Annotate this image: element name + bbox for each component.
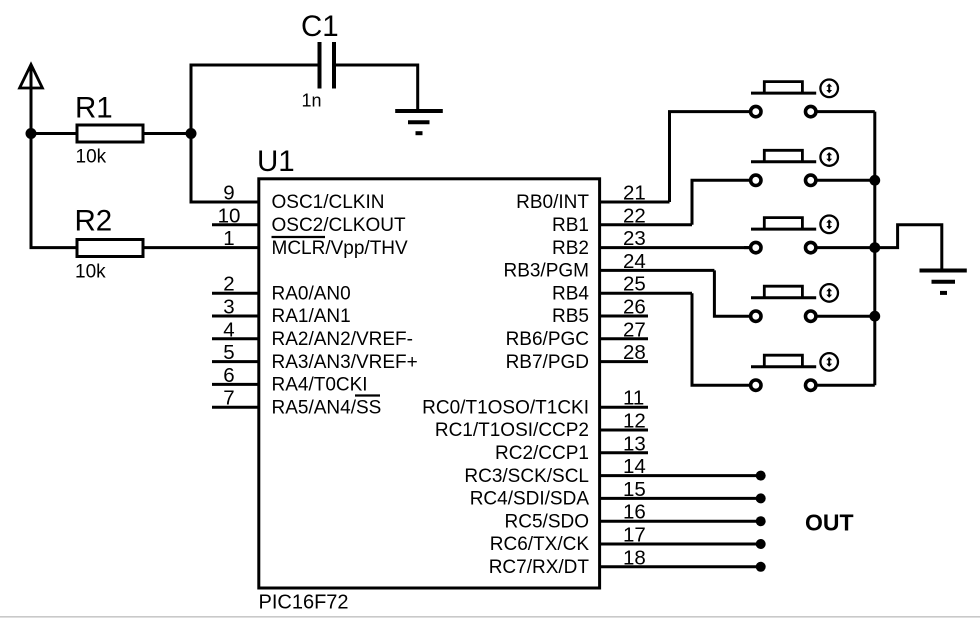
pin 15 (RC4/SDI/SDA) — [470, 478, 766, 510]
pin 11 (RC0/T1OSO/T1CKI) — [422, 387, 648, 419]
svg-text:RA3/AN3/VREF+: RA3/AN3/VREF+ — [272, 352, 418, 373]
node junction VCC/R1 — [26, 128, 37, 139]
pin 7 (RA5/AN4/SS) — [212, 387, 381, 419]
wire C1 to ground — [336, 65, 418, 110]
svg-text:MCLR/Vpp/THV: MCLR/Vpp/THV — [272, 238, 409, 259]
pin 26 (RB5) — [552, 296, 648, 328]
svg-text:5: 5 — [223, 341, 234, 364]
wire pin 23 to S3 — [744, 246, 750, 249]
switch S5 actuation icon — [820, 353, 838, 371]
svg-text:10k: 10k — [76, 147, 107, 168]
wire S5 to bus — [817, 384, 875, 387]
svg-text:4: 4 — [223, 318, 234, 341]
pin 10 (OSC2/CLKOUT) — [212, 204, 406, 236]
switch S2 actuation icon — [820, 148, 838, 166]
svg-text:14: 14 — [623, 455, 646, 478]
svg-text:12: 12 — [623, 410, 646, 433]
wire S4 to bus — [817, 315, 875, 318]
wire VCC rail down to R2 row — [31, 88, 76, 248]
svg-text:RA1/AN1: RA1/AN1 — [272, 306, 351, 327]
pin 25 (RB4) — [552, 273, 692, 305]
wire R1 to node B — [143, 132, 191, 135]
pin 22 (RB1) — [552, 204, 692, 236]
wire S1 to bus — [817, 110, 875, 113]
VCC power arrow — [20, 65, 43, 89]
wire pin 21 up to S1 — [670, 112, 750, 202]
wire R2 to pin 1 MCLR — [143, 246, 259, 249]
svg-text:RC3/SCK/SCL: RC3/SCK/SCL — [464, 466, 589, 487]
switch S4 actuation icon — [820, 284, 838, 302]
svg-text:1n: 1n — [302, 91, 322, 111]
pin 2 (RA0/AN0) — [212, 273, 351, 305]
ground (under C1) — [395, 111, 443, 133]
svg-text:RB5: RB5 — [552, 306, 589, 327]
svg-text:RC6/TX/CK: RC6/TX/CK — [490, 534, 590, 555]
svg-text:6: 6 — [223, 364, 234, 387]
svg-text:RB2: RB2 — [552, 238, 589, 259]
svg-text:11: 11 — [623, 387, 644, 410]
pin 28 (RB7/PGD) — [506, 341, 648, 373]
svg-text:U1: U1 — [257, 145, 295, 178]
pin 24 (RB3/PGM) — [503, 250, 714, 282]
svg-text:21: 21 — [623, 182, 646, 205]
switch S2 push button — [751, 150, 817, 185]
capacitor C1 — [320, 42, 335, 89]
svg-text:RB0/INT: RB0/INT — [516, 192, 589, 213]
pin 23 (RB2) — [552, 227, 750, 259]
pin 16 (RC5/SDO) — [505, 501, 766, 533]
svg-text:17: 17 — [623, 524, 646, 547]
wire node B down to pin 9 — [191, 134, 259, 203]
node junction R1/C1/OSC1 — [186, 128, 197, 139]
pin 12 (RC1/T1OSI/CCP2) — [435, 410, 648, 442]
svg-text:25: 25 — [623, 273, 646, 296]
svg-text:16: 16 — [623, 501, 646, 524]
svg-text:RB7/PGD: RB7/PGD — [506, 352, 589, 373]
svg-text:7: 7 — [223, 387, 234, 410]
svg-text:9: 9 — [223, 182, 234, 205]
switch S1 push button — [751, 82, 817, 117]
svg-text:2: 2 — [223, 273, 234, 296]
svg-text:RB3/PGM: RB3/PGM — [503, 261, 589, 282]
pin 27 (RB6/PGC) — [506, 318, 648, 350]
node bus/S4 — [869, 311, 880, 322]
bottom separator line — [0, 616, 980, 618]
IC U1 PIC16F72 body — [259, 179, 600, 588]
svg-text:RC0/T1OSO/T1CKI: RC0/T1OSO/T1CKI — [422, 397, 589, 418]
switch S4 push button — [751, 286, 817, 321]
switch S3 actuation icon — [820, 216, 838, 234]
pin 17 (RC6/TX/CK) — [490, 524, 766, 556]
svg-text:RC1/T1OSI/CCP2: RC1/T1OSI/CCP2 — [435, 420, 589, 441]
wire pin 24 down to S4 — [714, 270, 749, 316]
svg-text:RC4/SDI/SDA: RC4/SDI/SDA — [470, 489, 590, 510]
switch S1 actuation icon — [820, 80, 838, 98]
svg-text:26: 26 — [623, 296, 646, 319]
svg-text:RB6/PGC: RB6/PGC — [506, 329, 589, 350]
wire S3 to bus — [817, 246, 875, 249]
switch S5 push button — [751, 355, 817, 390]
switch S3 push button — [751, 218, 817, 253]
svg-text:22: 22 — [623, 204, 646, 227]
svg-text:15: 15 — [623, 478, 646, 501]
overline SS — [355, 394, 380, 396]
svg-text:R2: R2 — [75, 205, 113, 238]
wire node B up to C1 — [191, 65, 318, 134]
ground (right) — [920, 271, 967, 293]
svg-text:1: 1 — [223, 227, 234, 250]
svg-text:OSC2/CLKOUT: OSC2/CLKOUT — [272, 215, 406, 236]
svg-text:RB1: RB1 — [552, 215, 589, 236]
wire bus to right ground — [875, 225, 942, 269]
svg-text:OSC1/CLKIN: OSC1/CLKIN — [272, 192, 385, 213]
pin 13 (RC2/CCP1) — [495, 432, 648, 464]
overline MCLR — [272, 236, 326, 238]
svg-text:27: 27 — [623, 318, 646, 341]
wire pin 25 down to S5 — [692, 293, 750, 385]
pin 21 (RB0/INT) — [516, 182, 669, 214]
svg-text:R1: R1 — [75, 92, 113, 125]
svg-text:28: 28 — [623, 341, 646, 364]
pin 5 (RA3/AN3/VREF+) — [212, 341, 418, 373]
wire S2 to bus — [817, 179, 875, 182]
wire junction to R1 — [31, 132, 77, 135]
svg-text:RC7/RX/DT: RC7/RX/DT — [489, 557, 590, 578]
pin 9 (OSC1/CLKIN) — [223, 182, 384, 214]
svg-text:RC2/CCP1: RC2/CCP1 — [495, 443, 589, 464]
node bus/S2 — [869, 175, 880, 186]
svg-text:RC5/SDO: RC5/SDO — [505, 511, 589, 532]
svg-text:PIC16F72: PIC16F72 — [259, 592, 349, 614]
svg-text:C1: C1 — [301, 10, 339, 43]
wire pin 22 up to S2 — [692, 180, 750, 225]
svg-text:23: 23 — [623, 227, 646, 250]
svg-text:RA2/AN2/VREF-: RA2/AN2/VREF- — [272, 329, 413, 350]
svg-text:24: 24 — [623, 250, 646, 273]
pin 4 (RA2/AN2/VREF-) — [212, 318, 413, 350]
svg-text:RA0/AN0: RA0/AN0 — [272, 283, 351, 304]
svg-text:OUT: OUT — [805, 510, 854, 536]
pin 3 (RA1/AN1) — [212, 296, 351, 328]
svg-text:10: 10 — [218, 204, 241, 227]
svg-text:3: 3 — [223, 296, 234, 319]
svg-text:13: 13 — [623, 432, 646, 455]
pin 6 (RA4/T0CKI) — [212, 364, 368, 396]
pin 14 (RC3/SCK/SCL) — [464, 455, 765, 487]
node bus/S3 — [869, 242, 880, 253]
svg-text:RB4: RB4 — [552, 283, 589, 304]
resistor R1 — [77, 125, 143, 142]
resistor R2 — [77, 240, 143, 257]
svg-text:10k: 10k — [75, 262, 106, 283]
pin 1 (MCLR/Vpp/THV) — [223, 227, 408, 259]
svg-text:RA5/AN4/SS: RA5/AN4/SS — [272, 397, 382, 418]
svg-text:18: 18 — [623, 546, 646, 569]
wire ground bus (right) — [873, 112, 876, 386]
svg-text:RA4/T0CKI: RA4/T0CKI — [272, 375, 368, 396]
pin 18 (RC7/RX/DT) — [489, 546, 766, 578]
